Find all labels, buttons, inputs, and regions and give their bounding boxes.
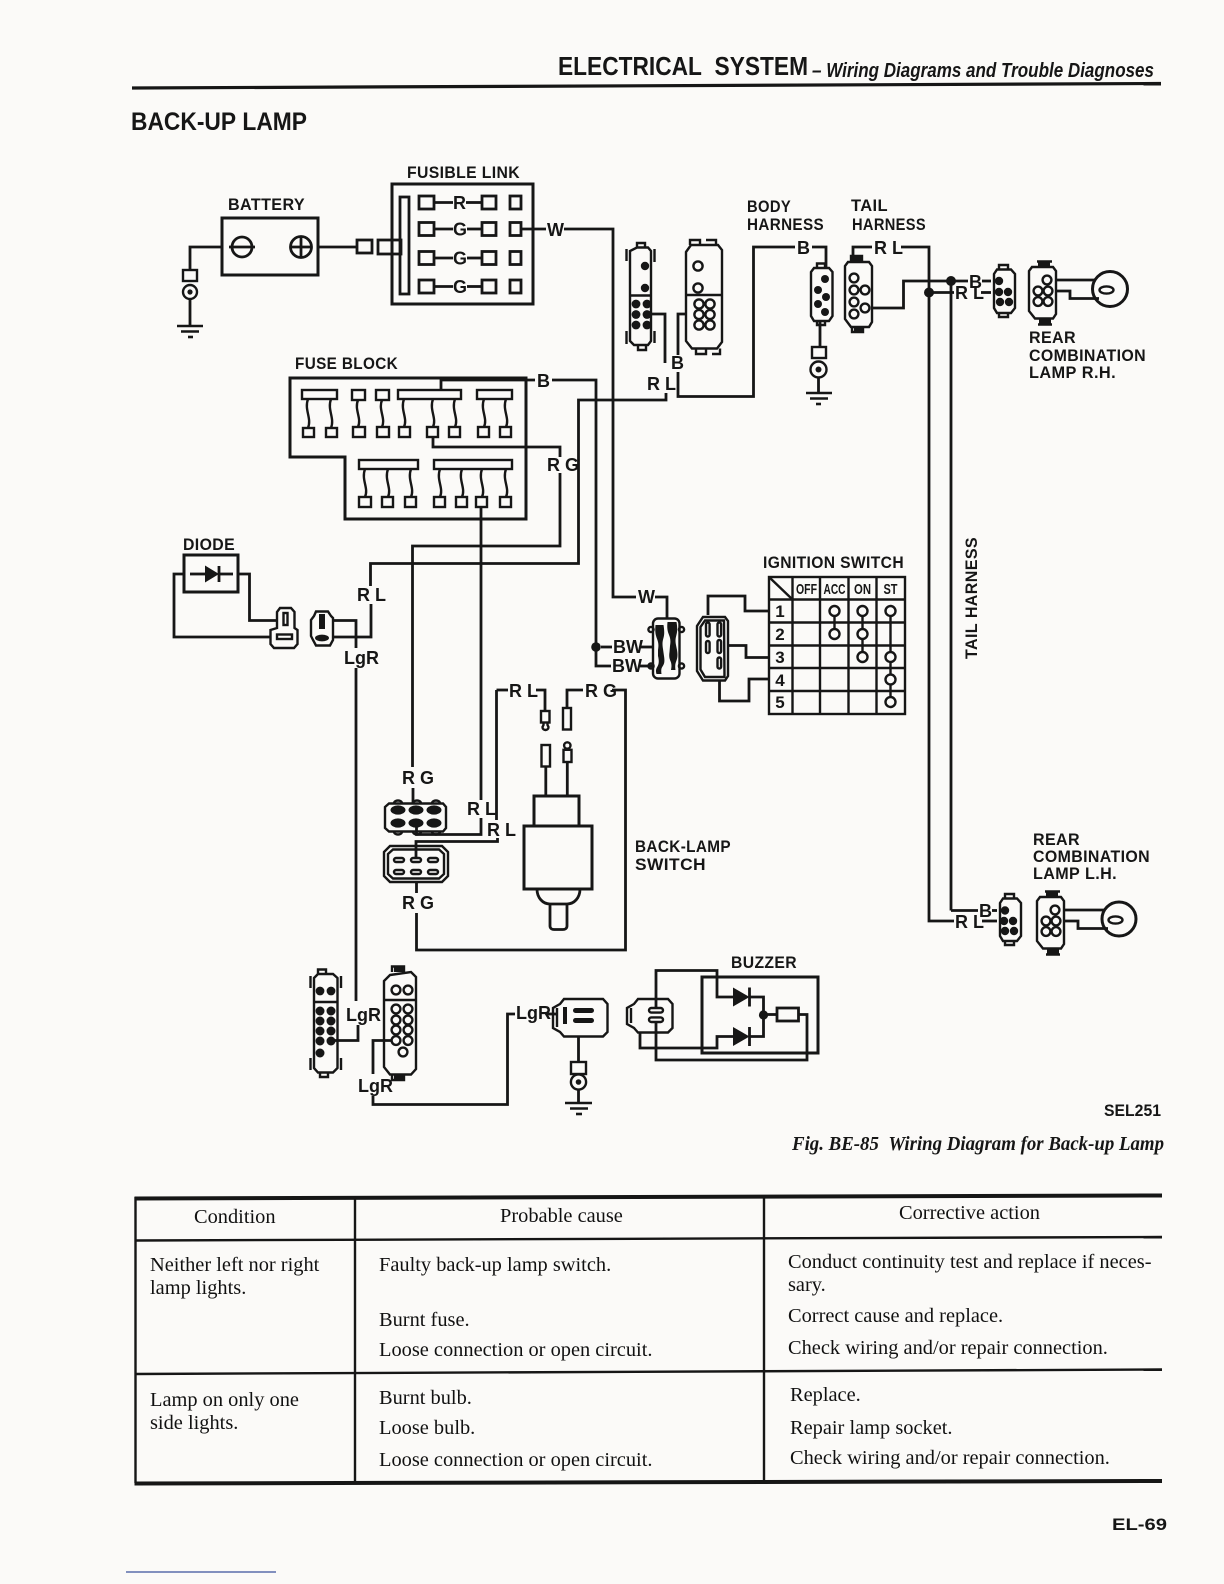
- main wires: [333, 247, 795, 800]
- svg-text:R L: R L: [955, 912, 984, 932]
- connector F2 lamp LH: [1037, 892, 1064, 955]
- svg-text:G: G: [453, 249, 467, 269]
- svg-text:Check wiring and/or repair con: Check wiring and/or repair connection.: [788, 1337, 1108, 1359]
- fusible link row G1: [419, 220, 521, 240]
- svg-text:SEL251: SEL251: [1104, 1101, 1161, 1120]
- ignition: [648, 553, 905, 714]
- wire RL branch upper: [497, 689, 509, 692]
- ground body harness: [806, 393, 832, 404]
- wire BW upper: [601, 646, 612, 649]
- harness: [747, 196, 981, 920]
- svg-text:ST: ST: [884, 581, 898, 598]
- wires F2 to bulb LH: [1064, 909, 1104, 912]
- svg-text:Burnt bulb.: Burnt bulb.: [379, 1387, 472, 1409]
- svg-text:LgR: LgR: [344, 648, 379, 668]
- wire RG below P8: [415, 882, 418, 893]
- svg-text:TAIL HARNESS: TAIL HARNESS: [962, 537, 981, 659]
- svg-text:Probable cause: Probable cause: [500, 1205, 623, 1227]
- wire RL to lamp RH: [929, 291, 954, 294]
- wire B tail to rear lamps: [872, 281, 951, 911]
- svg-text:HARNESS: HARNESS: [747, 215, 824, 234]
- connector D2 tail harness: [845, 256, 872, 332]
- wire RL to lamp LH: [929, 920, 954, 922]
- blue artifact line: [126, 1571, 276, 1573]
- wire BW lower: [596, 647, 611, 666]
- buzzer: [627, 953, 818, 1060]
- svg-text:BW: BW: [612, 656, 642, 676]
- svg-text:G: G: [453, 220, 467, 240]
- fusible link row G2: [419, 249, 521, 269]
- wires G2 to bulb RH: [1056, 279, 1095, 282]
- connectors mid: [627, 240, 723, 354]
- svg-text:Loose connection or open circu: Loose connection or open circuit.: [379, 1339, 652, 1361]
- table borders: [135, 1196, 1163, 1199]
- battery: [177, 195, 372, 337]
- connector F1 lamp LH: [1000, 894, 1021, 945]
- wire D1 to ground: [819, 321, 822, 347]
- connector G2 lamp RH: [1029, 262, 1056, 325]
- svg-text:BW: BW: [613, 637, 643, 657]
- rear lamps: [929, 262, 1150, 955]
- svg-text:BACK-LAMP: BACK-LAMP: [635, 837, 731, 856]
- svg-text:FUSE BLOCK: FUSE BLOCK: [295, 354, 398, 373]
- svg-text:FUSIBLE LINK: FUSIBLE LINK: [407, 163, 520, 182]
- wire diode left: [174, 574, 270, 637]
- svg-text:R L: R L: [509, 681, 538, 701]
- wire B connector pair to body harness: [678, 314, 686, 355]
- svg-text:BACK-UP LAMP: BACK-UP LAMP: [131, 108, 307, 136]
- svg-text:BATTERY: BATTERY: [228, 195, 305, 214]
- ignition header labels: [796, 581, 898, 598]
- connector K1 buzzer plug: [627, 999, 673, 1033]
- connector C1 black pair: [627, 243, 655, 350]
- svg-text:ON: ON: [854, 581, 871, 598]
- node BW junction: [591, 642, 601, 652]
- wire buzzer top: [656, 971, 733, 1009]
- svg-text:R G: R G: [402, 768, 434, 788]
- node RL junction: [924, 288, 934, 298]
- wire RL to connector P8: [495, 690, 498, 820]
- svg-text:Corrective action: Corrective action: [899, 1202, 1040, 1224]
- fuse block: [290, 354, 526, 519]
- wire J1 to ground: [577, 1037, 580, 1063]
- svg-text:B: B: [671, 353, 684, 373]
- wire W from fusible link: [521, 228, 546, 231]
- trouble table: [135, 1196, 1163, 1484]
- fusible link bus bar: [400, 197, 409, 294]
- fuse group 4: [477, 390, 512, 437]
- backlamp switch: [384, 681, 731, 950]
- svg-text:Burnt fuse.: Burnt fuse.: [379, 1309, 470, 1331]
- svg-text:– Wiring Diagrams and Trouble: – Wiring Diagrams and Trouble Diagnoses: [812, 60, 1154, 82]
- svg-text:LgR: LgR: [358, 1076, 393, 1096]
- svg-text:1: 1: [775, 602, 784, 621]
- diode D3 buzzer: [640, 1033, 733, 1049]
- svg-text:ACC: ACC: [824, 581, 846, 598]
- svg-text:BUZZER: BUZZER: [731, 953, 797, 972]
- svg-text:R L: R L: [357, 585, 386, 605]
- back-lamp switch body: [534, 796, 579, 826]
- fuse group 3: [398, 390, 461, 437]
- svg-text:LAMP R.H.: LAMP R.H.: [1029, 363, 1116, 382]
- fusible link: [378, 163, 636, 597]
- svg-text:sary.: sary.: [788, 1274, 826, 1296]
- connector L1 black: [311, 970, 342, 1078]
- svg-text:Replace.: Replace.: [790, 1384, 861, 1406]
- ignition contact lines: [833, 611, 835, 634]
- svg-text:EL-69: EL-69: [1112, 1515, 1167, 1534]
- wire buzzer bottom: [656, 1015, 807, 1061]
- svg-text:B: B: [797, 238, 810, 258]
- wire battery negative: [190, 247, 222, 270]
- wire RL tail harness: [853, 247, 872, 262]
- wire E2 row4: [720, 679, 770, 701]
- ground battery: [177, 326, 203, 337]
- bulb RH: [1093, 272, 1128, 307]
- svg-text:G: G: [453, 277, 467, 297]
- svg-text:R: R: [453, 193, 466, 213]
- svg-text:Loose bulb.: Loose bulb.: [379, 1417, 475, 1439]
- connector G1 lamp RH: [994, 265, 1015, 317]
- svg-text:W: W: [638, 587, 655, 607]
- fuse group 6: [434, 460, 512, 507]
- connector P6 black: [385, 801, 446, 835]
- svg-text:Lamp on only one: Lamp on only one: [150, 1389, 299, 1411]
- svg-text:Loose connection or open circu: Loose connection or open circuit.: [379, 1449, 652, 1471]
- ignition contacts circles: [830, 606, 896, 707]
- svg-text:LgR: LgR: [346, 1005, 381, 1025]
- connector square battery: [357, 240, 372, 253]
- page header title: [132, 51, 1161, 88]
- svg-text:IGNITION SWITCH: IGNITION SWITCH: [763, 553, 904, 572]
- svg-text:Condition: Condition: [194, 1206, 276, 1228]
- connector E2 ignition plug: [697, 617, 728, 681]
- wire RL from fuse block: [480, 507, 483, 800]
- connector E1 BW black: [648, 619, 684, 679]
- footer: [126, 1515, 1167, 1572]
- header rule: [132, 84, 1161, 89]
- svg-text:HARNESS: HARNESS: [852, 215, 926, 234]
- svg-text:Neither left nor right: Neither left nor right: [150, 1254, 320, 1276]
- svg-text:R L: R L: [487, 820, 516, 840]
- node buzzer junction: [759, 1010, 768, 1019]
- connector H1 diode plug: [271, 608, 298, 648]
- connector J1 plug: [553, 999, 608, 1037]
- battery plus terminal: [291, 237, 312, 258]
- svg-text:Fig. BE-85 Wiring Diagram for: Fig. BE-85 Wiring Diagram for Back-up La…: [791, 1133, 1164, 1155]
- svg-text:Faulty back-up lamp switch.: Faulty back-up lamp switch.: [379, 1254, 611, 1276]
- wire battery positive: [318, 246, 357, 249]
- svg-text:Check wiring and/or repair con: Check wiring and/or repair connection.: [790, 1447, 1110, 1469]
- fuse block outline: [290, 378, 526, 519]
- wire H2 to LgR: [333, 621, 356, 649]
- connector L2: [384, 967, 416, 1081]
- ignition switch table grid: [769, 577, 905, 714]
- svg-text:3: 3: [775, 648, 784, 667]
- svg-text:TAIL: TAIL: [851, 196, 888, 215]
- connector C2 open pair: [686, 240, 722, 354]
- svg-text:Repair lamp socket.: Repair lamp socket.: [790, 1417, 953, 1439]
- buzzer box: [702, 977, 818, 1053]
- connector D1 body harness: [811, 264, 833, 326]
- svg-text:SWITCH: SWITCH: [635, 855, 706, 874]
- svg-text:4: 4: [775, 671, 785, 690]
- resistor buzzer: [777, 1008, 799, 1021]
- title backup lamp: [131, 108, 307, 136]
- wire LgR from L2: [373, 1041, 392, 1075]
- wire E2 row1: [708, 596, 769, 615]
- svg-text:R L: R L: [467, 799, 496, 819]
- fuse group 5: [359, 460, 418, 507]
- wire B to lamp LH: [951, 909, 978, 912]
- fuse group 2: [352, 390, 389, 437]
- bottom connectors: [311, 967, 608, 1115]
- ground J1: [565, 1103, 592, 1114]
- wire RG branch upper: [567, 690, 583, 708]
- svg-text:R L: R L: [955, 283, 984, 303]
- diode D2 buzzer: [733, 988, 750, 1007]
- battery minus terminal: [232, 237, 252, 257]
- svg-text:DIODE: DIODE: [183, 535, 235, 554]
- wire E2 row3: [728, 646, 769, 658]
- svg-text:R L: R L: [647, 374, 676, 394]
- svg-text:2: 2: [775, 625, 784, 644]
- svg-text:R G: R G: [547, 455, 579, 475]
- svg-text:Correct cause and replace.: Correct cause and replace.: [788, 1305, 1003, 1327]
- fuse group 1: [302, 390, 337, 437]
- svg-text:OFF: OFF: [796, 581, 817, 598]
- bulb LH: [1102, 902, 1136, 936]
- svg-text:REAR: REAR: [1029, 328, 1076, 347]
- wire RG from fuse block: [433, 437, 560, 457]
- svg-text:BODY: BODY: [747, 197, 791, 216]
- fusible link row G3: [419, 277, 521, 297]
- svg-text:R G: R G: [402, 893, 434, 913]
- connector H2 diode plug black: [311, 612, 333, 646]
- wire diode right: [238, 574, 277, 621]
- fusible link row R: [419, 193, 521, 213]
- svg-text:5: 5: [775, 693, 784, 712]
- ignition row numbers: [775, 602, 785, 712]
- svg-text:Conduct continuity test and: Conduct continuity test and replace if n…: [788, 1251, 1152, 1273]
- diode: [174, 535, 379, 1001]
- inline connector RL column: [541, 711, 550, 796]
- svg-text:side lights.: side lights.: [150, 1412, 238, 1434]
- wire RL connector pair to diode: [651, 314, 665, 363]
- wire B to lamp RH: [951, 280, 968, 283]
- svg-text:R L: R L: [874, 238, 903, 258]
- svg-text:lamp lights.: lamp lights.: [150, 1277, 246, 1299]
- diode symbol D1: [190, 573, 205, 576]
- connector P8: [384, 846, 448, 882]
- svg-text:W: W: [547, 220, 564, 240]
- battery ground terminal: [183, 270, 197, 281]
- node B junction: [946, 276, 956, 286]
- inline connector RG column: [563, 708, 572, 796]
- svg-text:LAMP L.H.: LAMP L.H.: [1033, 864, 1117, 883]
- svg-text:LgR: LgR: [516, 1003, 551, 1023]
- svg-text:B: B: [537, 371, 550, 391]
- fusible link plug blade: [378, 240, 401, 254]
- wire B from fuse block: [441, 380, 535, 391]
- captions: [791, 1101, 1164, 1155]
- svg-text:ELECTRICAL SYSTEM: ELECTRICAL SYSTEM: [558, 51, 808, 81]
